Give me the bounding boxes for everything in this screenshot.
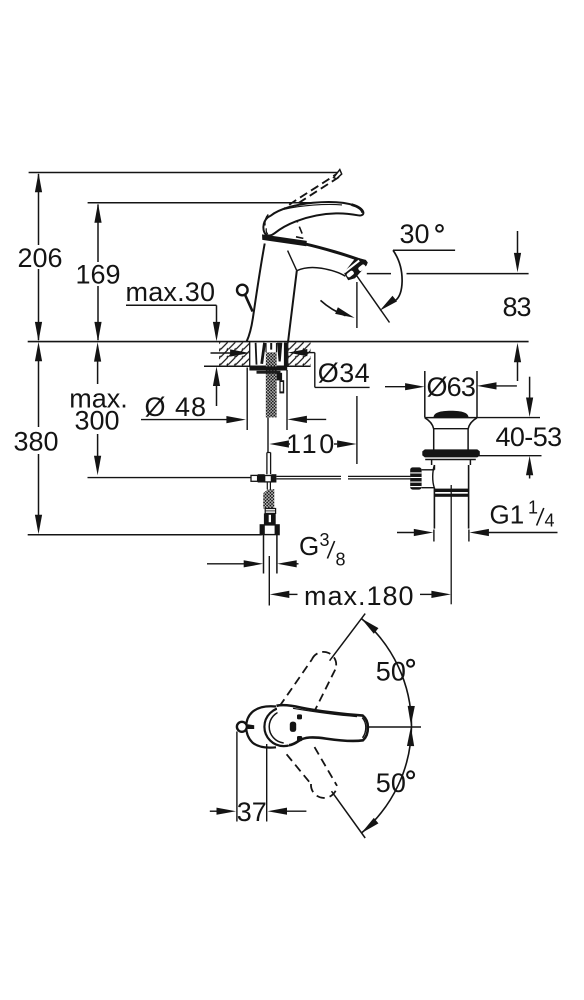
lever tip accent [352,205,363,213]
rubber seal [422,449,480,457]
svg-text:110: 110 [286,429,337,459]
mid arrow lower [407,727,415,747]
tee right block [271,474,276,482]
swung spout axis line [356,274,390,323]
dimension 380 [13,342,58,535]
svg-text:380: 380 [13,427,58,457]
swing arc from 30° label to spout [393,250,402,300]
plug dome [434,411,469,418]
flange side / tick left [424,371,426,418]
bracket white slot [281,382,283,391]
svg-text:83: 83 [502,292,530,322]
side port bottom [422,487,435,489]
svg-text:Ø63: Ø63 [426,372,475,402]
pop-up knob plan [237,722,247,732]
body escutcheon blob [246,706,287,747]
aerator end block [344,257,368,280]
cartridge inner arc [269,711,283,743]
svg-text:G: G [299,531,319,561]
handle mark dot 2 [297,736,302,741]
dimension max.300 [69,342,128,475]
washer label strip [257,371,281,374]
aerator chamfer highlight [344,261,359,273]
coupling band 1 [434,489,468,492]
hose nut slot [269,515,271,522]
hose end reference line [28,534,262,536]
swing arc [361,618,411,833]
tee center [265,476,272,482]
cone wedge left outer [255,343,258,365]
dimension 37 [236,732,238,822]
svg-text:Ø 48: Ø 48 [145,392,208,422]
knurled adjuster knob [410,467,421,489]
mid arrow upper [407,706,415,726]
dimension 206 [17,173,62,342]
svg-text:206: 206 [17,243,62,273]
hole collar right [284,343,287,367]
dashed handle upper (+50) [280,660,312,707]
handle mark bar [290,722,296,732]
handle mark dot 1 [297,714,302,719]
lever top inner line [284,204,342,209]
hose tail left wall [263,535,265,574]
deck hatch left of hole [219,342,249,365]
svg-text:Ø34: Ø34 [318,358,370,388]
ref line lever height [88,202,317,204]
dashed raised lever outer curve [275,172,340,219]
line below seal [425,459,476,461]
cartridge circle [264,708,303,747]
arc end arrow top [359,616,379,634]
pop-up knob stem [245,295,253,312]
hole edge left [249,342,251,366]
rod below tee [266,483,268,490]
neck contour line [288,251,297,271]
tee left block [258,474,265,482]
waste centerline [450,485,452,604]
shank top white section [266,343,277,352]
knob nub [248,724,255,729]
horizontal rod to waste (left part) [276,475,341,477]
svg-text:G1: G1 [490,500,525,530]
centerline to arc [369,726,421,728]
flange side / tick right [476,371,478,418]
radius line lower [332,791,366,838]
ref line top (spout max height) [29,172,337,174]
body bulge at port [433,465,435,488]
dashed raised lever inner curve [290,177,339,209]
shank center pin [270,343,272,350]
pillar left edge [247,244,265,342]
pop-up rod horizontal reference line [88,477,252,479]
svg-text:300: 300 [74,406,119,436]
aerator white slot 1 [358,264,367,272]
svg-text:8: 8 [336,550,346,570]
threaded shank [266,352,277,417]
side port top [422,469,435,471]
hose nut dark [264,513,276,525]
body wall right [468,465,470,529]
svg-text:1: 1 [528,498,538,518]
body wall left [433,465,435,529]
arc end arrow bottom [359,818,379,836]
lever dome lower bulb [265,215,268,226]
svg-text:50: 50 [376,657,406,687]
handle tip inner line [362,718,366,738]
svg-text:30: 30 [400,219,430,249]
compression fitting [265,509,275,514]
coupling band 2 [434,494,468,497]
svg-text:169: 169 [75,260,120,290]
dashed mid segment [295,216,302,234]
handle plan outline [277,705,368,745]
pop-up rod thin [267,417,269,452]
collar walls [431,460,433,466]
lever handle [263,202,363,236]
dashed lever tip [334,170,342,179]
pop-up knob [237,285,248,296]
dashed handle lower (-50) [287,754,311,784]
neck curve right [468,418,477,450]
pillar right edge [288,271,297,342]
small swing arc left [321,300,346,315]
mounting bracket lower [279,380,284,393]
handle top inner line [293,708,357,716]
tee left nub [251,475,258,481]
handle plan fill [277,705,368,745]
neck curve left [425,418,434,450]
cone wedge right [277,343,282,362]
dimension 169 [75,203,120,341]
neck inner line [434,428,468,430]
spout top edge [305,244,365,262]
horizontal rod to waste (right part) [348,475,410,477]
cone wedge left inner [262,343,265,364]
svg-text:max.180: max.180 [304,581,415,611]
svg-text:max.30: max.30 [126,277,216,307]
mounting washer [249,366,287,370]
dimension max.30 (deck thickness) [126,277,221,406]
aerator white slot 2 [346,270,355,278]
mounting bracket upper [277,373,282,381]
hex nut [260,525,279,535]
dark joint band [262,234,307,246]
spout underside [297,268,346,277]
hole edge right [287,342,289,366]
pop-up rod thick [266,453,268,475]
svg-text:3: 3 [320,530,330,550]
deck bottom line [204,365,311,367]
hose tail right wall [276,535,278,574]
braided hose [263,489,274,508]
svg-text:40-53: 40-53 [495,422,561,452]
deck hatch right of hole [288,342,311,365]
svg-text:4: 4 [545,511,555,531]
svg-text:37: 37 [237,797,267,827]
flange bottom [425,417,477,419]
spout outlet drop line [356,282,358,328]
deck top line [28,341,529,343]
svg-text:50: 50 [376,768,406,798]
radius line upper [330,614,366,661]
